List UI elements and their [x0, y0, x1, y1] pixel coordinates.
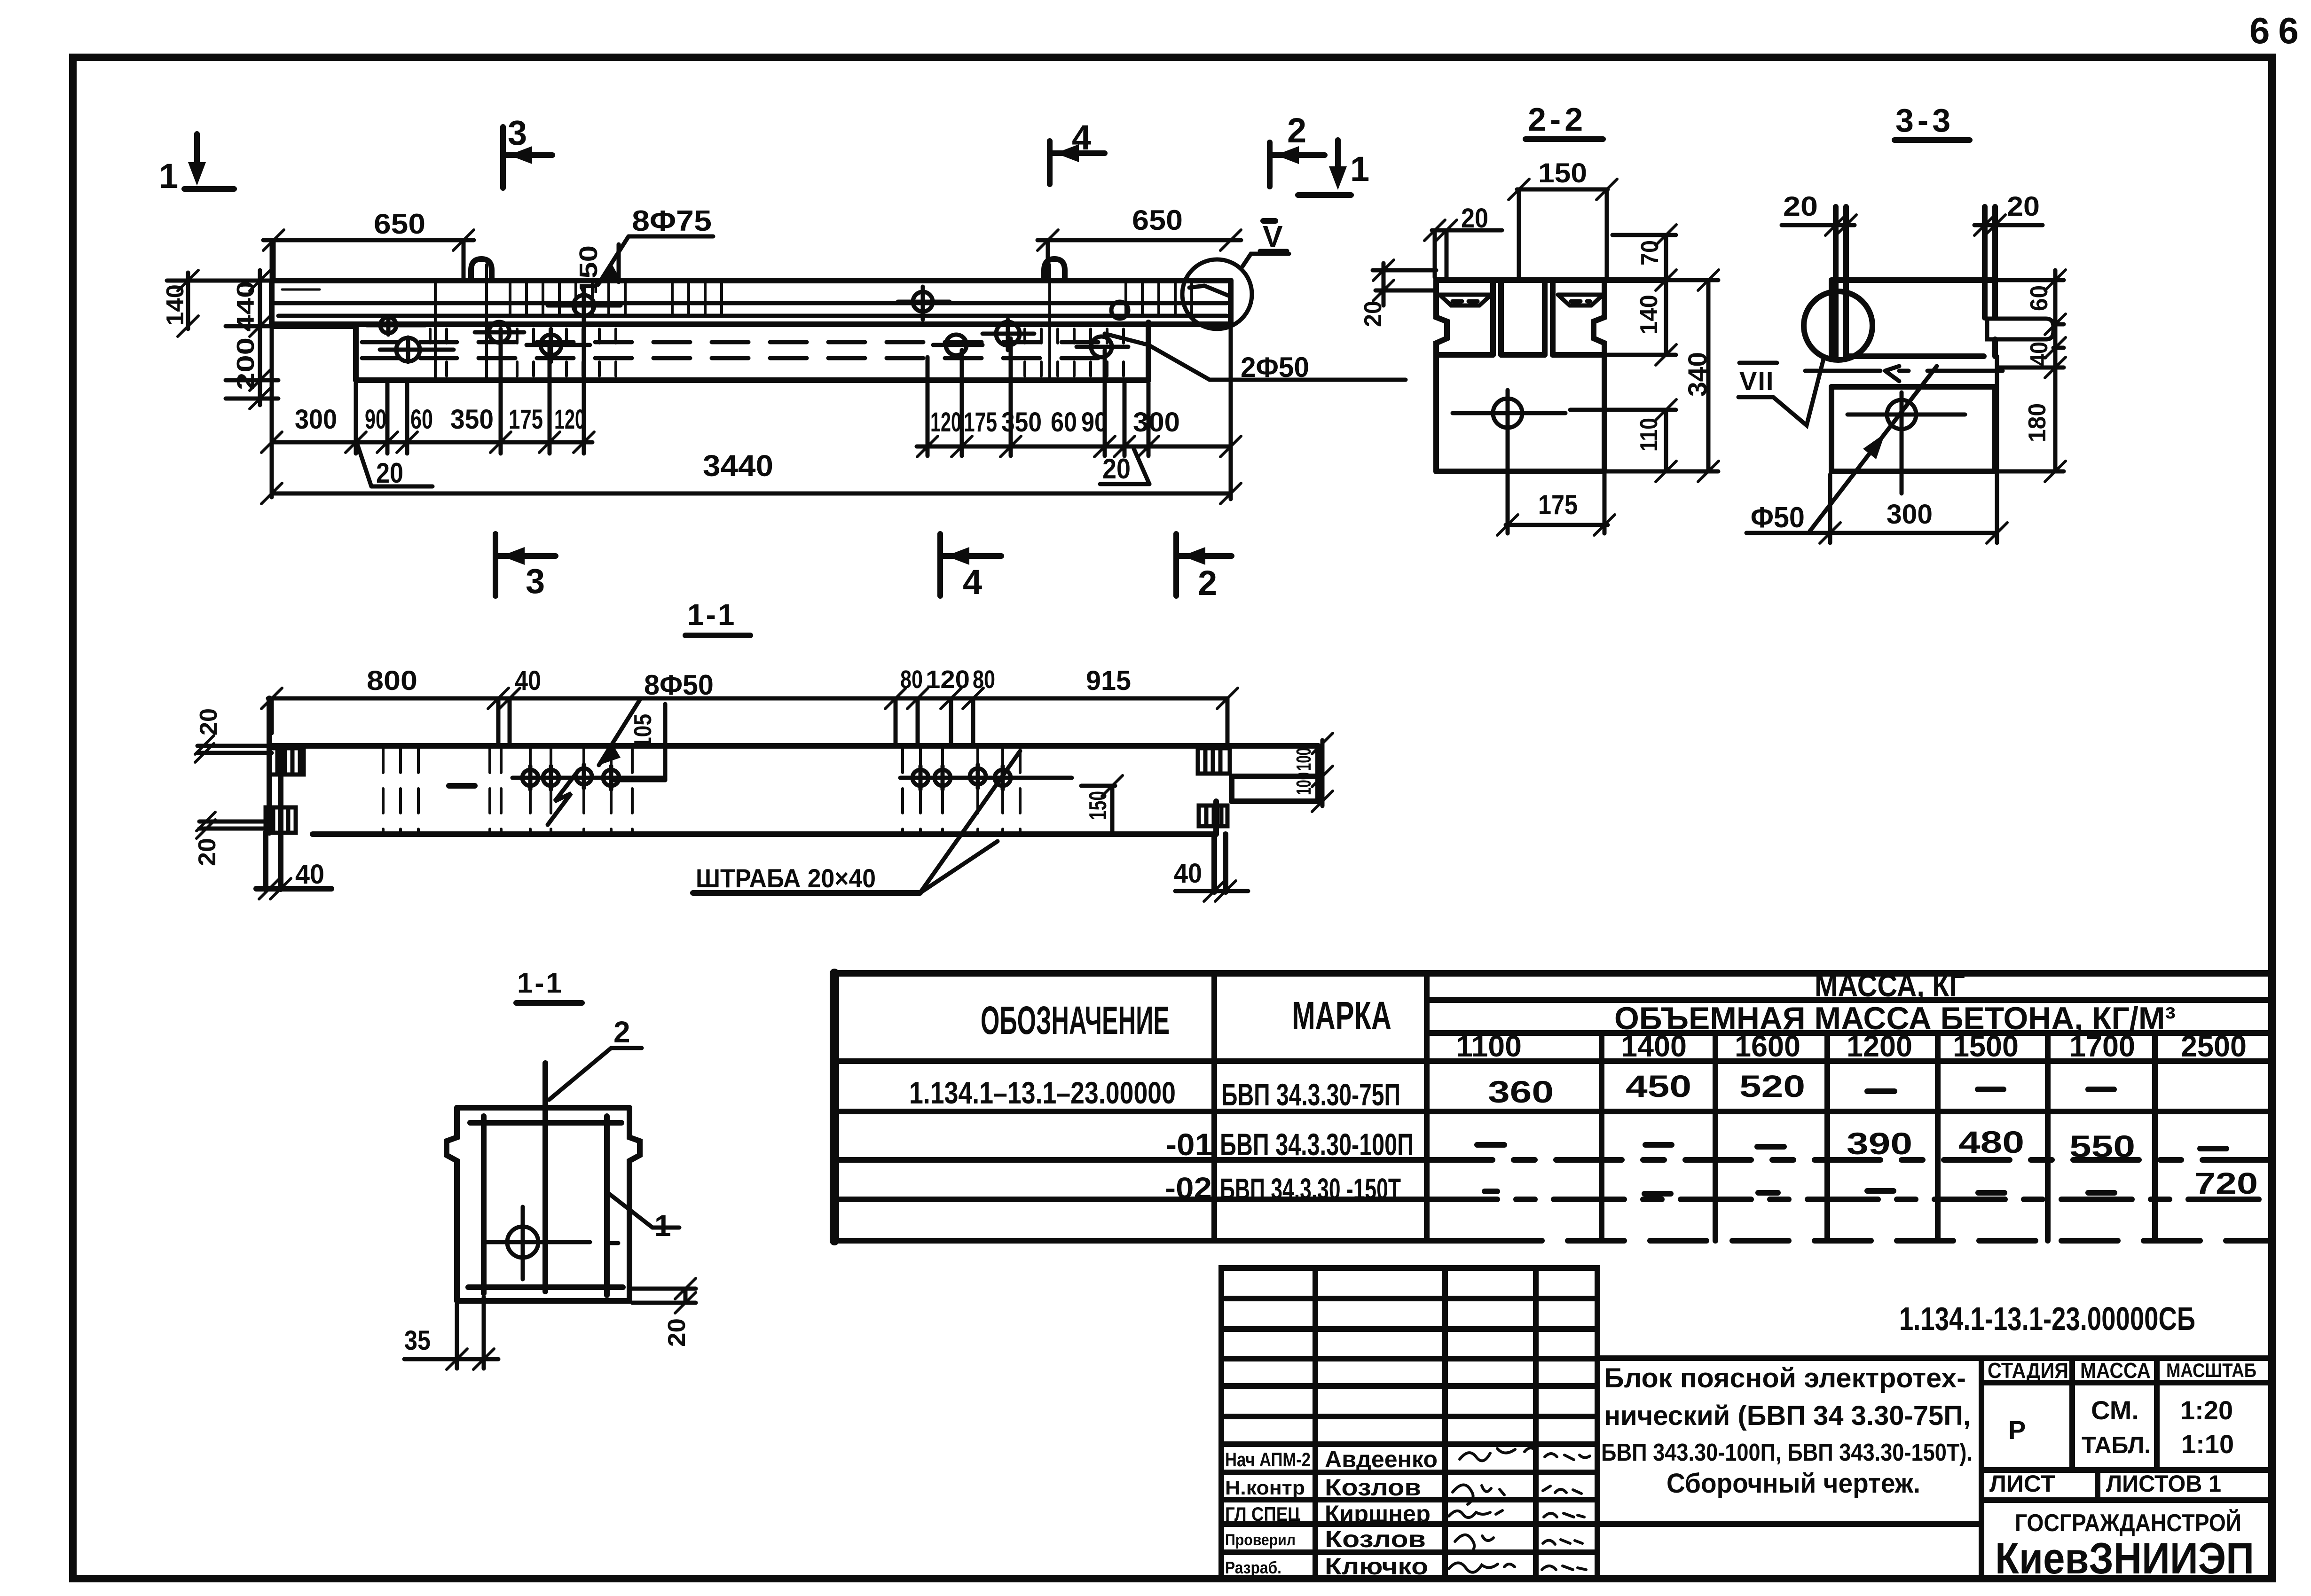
svg-text:Нач АПМ-2: Нач АПМ-2	[1225, 1448, 1311, 1471]
anchor plates left (1-1)	[266, 748, 304, 833]
svg-text:БВП 34.3.30-100П: БВП 34.3.30-100П	[1220, 1127, 1414, 1162]
svg-text:Разраб.: Разраб.	[1225, 1558, 1281, 1577]
svg-text:Φ50: Φ50	[1751, 501, 1805, 534]
small section bar item 2	[542, 1063, 548, 1291]
plan view: hatch ticks group A	[510, 283, 1192, 314]
svg-text:1-1: 1-1	[687, 598, 737, 632]
plan view: detail circle V	[1182, 259, 1252, 329]
svg-text:650: 650	[374, 208, 425, 240]
dimension 105 rotated (1-1)	[611, 704, 665, 780]
svg-text:2: 2	[1198, 563, 1217, 602]
svg-text:VII: VII	[1739, 366, 1774, 396]
stamp header labels	[1988, 1358, 2256, 1383]
svg-text:1:20: 1:20	[2180, 1395, 2233, 1425]
dimension 150 top (rotated)	[574, 244, 619, 295]
table row 3	[1165, 1166, 2258, 1206]
label V with leader	[1242, 219, 1289, 266]
svg-text:120: 120	[554, 404, 585, 435]
svg-text:ЛИСТОВ 1: ЛИСТОВ 1	[2106, 1471, 2221, 1497]
svg-text:3: 3	[526, 562, 545, 601]
svg-text:90: 90	[365, 404, 386, 435]
stamp values	[2008, 1395, 2234, 1459]
signature grid	[1221, 1268, 1597, 1579]
bottom dimension row right	[917, 324, 1241, 499]
plan view: end chamfer wedge right	[1189, 286, 1231, 297]
svg-text:175: 175	[1538, 490, 1578, 520]
svg-text:66: 66	[2249, 10, 2307, 51]
svg-text:80: 80	[900, 665, 923, 694]
svg-text:3-3: 3-3	[1895, 102, 1954, 139]
left dimensions 140 440 200	[162, 270, 278, 409]
title block frame	[1597, 1358, 2272, 1579]
svg-text:1500: 1500	[1953, 1029, 2019, 1063]
dimension 20 (2-2 top-left)	[1424, 203, 1502, 277]
svg-text:150: 150	[1085, 791, 1112, 820]
section 3-3 rebar stubs	[1836, 207, 1995, 356]
section 1-1 beam body	[256, 698, 1318, 892]
dimension 150 (2-2)	[1509, 158, 1617, 277]
svg-text:Авдеенко: Авдеенко	[1325, 1446, 1438, 1472]
section mark 1 right (down arrow)	[1298, 140, 1369, 195]
svg-text:Сборочный чертеж.: Сборочный чертеж.	[1666, 1468, 1920, 1499]
section 2-2 top grooves	[1439, 295, 1603, 305]
section 2-2 outline	[1436, 280, 1665, 471]
section 2-2 hole	[1453, 390, 1565, 439]
small section outline	[447, 1108, 640, 1301]
svg-text:Проверил: Проверил	[1225, 1531, 1296, 1549]
section mark 4 top-right	[1050, 118, 1105, 184]
svg-text:550: 550	[2069, 1129, 2135, 1164]
dimension 650 top-right	[1038, 204, 1241, 281]
svg-text:Киршнер: Киршнер	[1325, 1501, 1431, 1527]
label 2x50 with leader	[1105, 334, 1406, 383]
svg-text:80: 80	[973, 665, 995, 694]
svg-text:20: 20	[376, 457, 403, 489]
svg-text:20: 20	[2007, 191, 2040, 222]
svg-text:Козлов: Козлов	[1325, 1526, 1426, 1552]
table row 1	[909, 1069, 1805, 1112]
dashed rebar bars right group (1-1)	[903, 748, 1020, 834]
svg-text:150: 150	[574, 245, 603, 295]
section mark 3 bottom	[495, 534, 556, 601]
small section rebar cage	[468, 1116, 623, 1295]
svg-text:390: 390	[1847, 1126, 1912, 1161]
svg-text:8Φ75: 8Φ75	[632, 205, 712, 237]
svg-text:150: 150	[1538, 158, 1587, 188]
label F50 with leader (3-3)	[1746, 366, 1937, 534]
section mark 2 bottom	[1176, 534, 1232, 602]
svg-text:Р: Р	[2008, 1415, 2026, 1445]
svg-text:КиевЗНИИЭП: КиевЗНИИЭП	[1995, 1533, 2254, 1583]
dimensions 100 100 right end (1-1)	[1292, 733, 1333, 812]
section 1-1 title (middle)	[685, 598, 750, 635]
svg-text:175: 175	[509, 404, 543, 435]
detail circle VII (3-3)	[1804, 291, 1872, 360]
label 1 with leader (small section)	[608, 1193, 679, 1243]
svg-text:БВП 34.3.30-75П: БВП 34.3.30-75П	[1221, 1077, 1400, 1112]
dimension 20 (3-3 right)	[1974, 191, 2043, 235]
dimension 70 (2-2)	[1612, 225, 1676, 290]
svg-text:180: 180	[2024, 403, 2051, 442]
dimension 300 (3-3 bottom)	[1820, 356, 2007, 543]
plan view: lower hatch dashes group	[430, 329, 1124, 376]
svg-text:300: 300	[1887, 499, 1933, 530]
title text	[1601, 1363, 1973, 1499]
svg-text:2-2: 2-2	[1528, 101, 1587, 138]
svg-text:20: 20	[663, 1318, 691, 1347]
svg-text:Козлов: Козлов	[1325, 1474, 1421, 1501]
section 2-2 title	[1525, 101, 1603, 139]
svg-text:100: 100	[1292, 748, 1315, 771]
dimension 340 (2-2)	[1604, 270, 1719, 482]
svg-text:ОБОЗНАЧЕНИЕ: ОБОЗНАЧЕНИЕ	[981, 998, 1170, 1042]
svg-text:МАРКА: МАРКА	[1292, 994, 1391, 1038]
svg-text:800: 800	[367, 665, 417, 696]
svg-text:110: 110	[1635, 418, 1663, 452]
dimension 40 right tail (1-1)	[1174, 858, 1248, 901]
label 40 left tail (1-1)	[259, 859, 324, 899]
dashed rebar bars left group (1-1)	[383, 748, 632, 834]
svg-text:1:10: 1:10	[2181, 1429, 2234, 1459]
plan view: cut lines through loops	[435, 265, 1050, 380]
svg-text:1200: 1200	[1847, 1029, 1912, 1063]
section 1-1 top dimension row	[261, 665, 1238, 746]
signature scribbles	[1449, 1448, 1590, 1573]
svg-text:440: 440	[232, 281, 259, 332]
svg-text:20: 20	[1360, 301, 1387, 327]
svg-text:120: 120	[926, 665, 970, 694]
svg-text:Н.контр: Н.контр	[1225, 1477, 1305, 1499]
svg-text:20: 20	[195, 708, 222, 735]
svg-text:120: 120	[930, 407, 961, 438]
signature row labels	[1225, 1448, 1311, 1577]
label 20 bottom-right with leader	[1100, 449, 1149, 485]
svg-text:100: 100	[1292, 772, 1315, 795]
plan view: hidden channels dashed	[362, 342, 1105, 358]
dimension 175 (2-2 bottom)	[1497, 439, 1615, 535]
dimension 20 (2-2 far left, slab)	[1360, 260, 1436, 327]
section 3-3 joint line	[1805, 366, 2007, 381]
label 2 with leader (small section)	[549, 1015, 642, 1100]
label 8x50 with leader (1-1)	[599, 669, 714, 765]
label SHTRABA 20x40 with leaders (1-1)	[693, 751, 1020, 893]
mass table grid	[834, 973, 2272, 1241]
section 3-3 title	[1894, 102, 1970, 140]
svg-text:300: 300	[295, 404, 337, 435]
plan view: lifting loop left	[471, 259, 492, 281]
table density column headers	[1456, 1029, 2247, 1063]
dimension 20 upper-left (1-1)	[195, 708, 272, 762]
dimension 35 (small section)	[404, 1297, 498, 1369]
svg-text:1100: 1100	[1456, 1029, 1522, 1063]
dimension 60 40 (3-3 right)	[1995, 270, 2066, 371]
svg-text:300: 300	[1133, 407, 1180, 438]
section 3-3 outline	[1832, 280, 2053, 471]
label 8x75 with leader	[598, 205, 713, 285]
svg-text:ГЛ СПЕЦ: ГЛ СПЕЦ	[1225, 1503, 1300, 1525]
svg-text:480: 480	[1958, 1125, 2024, 1159]
label 20 bottom-left with leader	[357, 444, 432, 489]
svg-text:2500: 2500	[2181, 1029, 2247, 1063]
svg-text:720: 720	[2194, 1166, 2258, 1200]
svg-text:20: 20	[1461, 203, 1488, 234]
svg-text:20: 20	[1102, 453, 1131, 485]
svg-text:1: 1	[159, 156, 178, 196]
svg-text:40: 40	[2026, 342, 2053, 366]
svg-text:СТАДИЯ: СТАДИЯ	[1988, 1358, 2068, 1383]
anchor plates right (1-1)	[1198, 748, 1230, 826]
section mark 3 top	[503, 113, 552, 188]
small section 1-1 title	[516, 967, 582, 1003]
bottom dimension row left	[261, 240, 594, 497]
svg-text:35: 35	[404, 1325, 431, 1356]
section mark 4 bottom	[940, 534, 1001, 602]
svg-text:-01: -01	[1166, 1127, 1213, 1162]
svg-text:СМ.: СМ.	[2091, 1395, 2139, 1425]
section 3-3 hole	[1847, 392, 1965, 493]
svg-text:1-1: 1-1	[517, 967, 564, 999]
svg-text:-02: -02	[1165, 1171, 1212, 1205]
svg-text:Блок поясной электротех-: Блок поясной электротех-	[1604, 1363, 1966, 1393]
hatch arrow mark (1-1)	[548, 771, 578, 825]
signature names	[1325, 1446, 1438, 1580]
svg-text:МАССА: МАССА	[2080, 1358, 2151, 1383]
dimension 20 lower-left (1-1)	[194, 812, 266, 866]
svg-text:140: 140	[1635, 295, 1663, 335]
svg-text:40: 40	[295, 859, 324, 890]
svg-text:60: 60	[2026, 285, 2053, 311]
sheet row	[1989, 1471, 2221, 1497]
svg-text:1: 1	[1350, 149, 1369, 188]
section mark 1 top-left	[159, 134, 234, 196]
svg-text:140: 140	[162, 284, 189, 326]
svg-text:БВП 34.3.30 -150Т: БВП 34.3.30 -150Т	[1220, 1172, 1401, 1206]
table row 2	[1166, 1125, 2135, 1164]
svg-text:20: 20	[194, 838, 221, 866]
svg-text:650: 650	[1132, 204, 1183, 236]
spacer circles right group (1-1)	[900, 765, 1072, 790]
dimension 3440	[261, 449, 1241, 504]
svg-text:450: 450	[1626, 1069, 1691, 1103]
svg-text:4: 4	[963, 563, 982, 602]
svg-text:8Φ50: 8Φ50	[644, 669, 714, 701]
svg-text:нический (БВП 34 3.30-75П,: нический (БВП 34 3.30-75П,	[1604, 1400, 1971, 1431]
svg-text:ШТРАБА 20×40: ШТРАБА 20×40	[696, 863, 876, 893]
small section hole	[485, 1207, 618, 1279]
section mark 2 top-right	[1270, 111, 1325, 187]
svg-text:1.134.1-13.1-23.00000СБ: 1.134.1-13.1-23.00000СБ	[1899, 1300, 2195, 1337]
svg-text:520: 520	[1739, 1069, 1805, 1103]
svg-text:1.134.1–13.1–23.00000: 1.134.1–13.1–23.00000	[909, 1075, 1176, 1110]
svg-text:340: 340	[1682, 352, 1712, 397]
svg-text:ГОСГРАЖДАНСТРОЙ: ГОСГРАЖДАНСТРОЙ	[2015, 1509, 2241, 1537]
svg-text:70: 70	[1636, 240, 1664, 266]
spacer circles left group (1-1)	[449, 765, 663, 790]
dimension 20 (small section right)	[632, 1278, 696, 1347]
svg-text:350: 350	[1001, 407, 1042, 438]
svg-text:20: 20	[1783, 191, 1818, 222]
svg-text:Ключко: Ключко	[1325, 1553, 1428, 1580]
svg-text:175: 175	[964, 407, 997, 438]
dimension 140 (2-2)	[1608, 280, 1676, 365]
svg-text:350: 350	[450, 404, 494, 435]
svg-text:60: 60	[410, 404, 433, 435]
svg-text:ЛИСТ: ЛИСТ	[1989, 1471, 2055, 1497]
svg-text:915: 915	[1086, 665, 1131, 696]
svg-text:60: 60	[1051, 407, 1077, 438]
svg-text:40: 40	[515, 665, 541, 696]
svg-text:МАССА, КГ: МАССА, КГ	[1815, 968, 1965, 1003]
svg-text:90: 90	[1081, 407, 1108, 438]
svg-text:40: 40	[1174, 858, 1202, 889]
plan view: beam outline	[272, 281, 1231, 380]
dimension 650 top-left	[263, 208, 474, 281]
svg-text:1400: 1400	[1621, 1029, 1687, 1063]
svg-text:2: 2	[1287, 111, 1306, 150]
plan view: top slab inner lines	[275, 289, 1227, 316]
svg-text:200: 200	[232, 337, 259, 390]
svg-text:V: V	[1263, 219, 1283, 253]
svg-text:360: 360	[1488, 1074, 1554, 1109]
svg-text:3: 3	[508, 113, 527, 152]
plan view: embed circles with crosshairs	[367, 287, 1128, 362]
svg-text:1700: 1700	[2069, 1029, 2135, 1063]
dimension 180 (3-3)	[1995, 357, 2066, 482]
svg-text:2: 2	[613, 1015, 630, 1049]
label VII with leader	[1738, 357, 1824, 425]
svg-text:МАСШТАБ: МАСШТАБ	[2166, 1359, 2256, 1381]
plan view: lifting loop right	[1044, 259, 1065, 281]
svg-text:БВП 343.30-100П, БВП 343.30-15: БВП 343.30-100П, БВП 343.30-150Т).	[1601, 1439, 1973, 1466]
svg-text:1600: 1600	[1735, 1029, 1800, 1063]
dimension 20 (3-3 left)	[1782, 191, 1856, 235]
svg-text:ТАБЛ.: ТАБЛ.	[2082, 1432, 2151, 1458]
svg-text:3440: 3440	[703, 449, 773, 483]
dimension 150 rotated (1-1 right)	[1081, 775, 1123, 834]
dimension 110 (2-2)	[1570, 399, 1676, 482]
